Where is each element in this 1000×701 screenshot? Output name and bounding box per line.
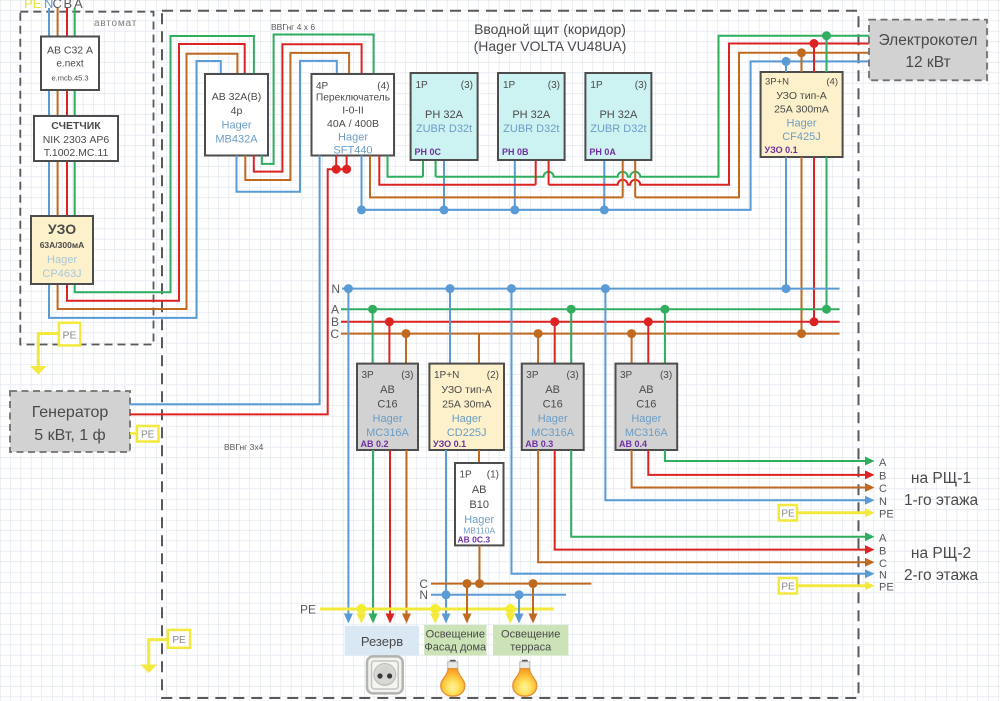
wire brown from УЗО CP463J to АВ 32А(В) input loop bbox=[58, 54, 238, 309]
svg-text:1Р: 1Р bbox=[590, 80, 603, 91]
svg-text:PE: PE bbox=[141, 430, 155, 441]
svg-text:РН 0С: РН 0С bbox=[415, 147, 442, 157]
PE terminal box РЩ-2 bbox=[779, 578, 797, 594]
svg-text:3Р: 3Р bbox=[526, 370, 539, 381]
svg-text:АВ: АВ bbox=[545, 384, 560, 396]
svg-text:АВ: АВ bbox=[639, 384, 654, 396]
svg-text:Hager: Hager bbox=[47, 254, 77, 266]
junction dots on buses bbox=[344, 284, 353, 293]
wire blue generator N to Переключатель input II bbox=[130, 156, 320, 405]
wire АВ 0.3 outputs to РЩ-2 (green A) bbox=[571, 450, 866, 537]
svg-text:Вводной щит (коридор): Вводной щит (коридор) bbox=[474, 21, 626, 37]
svg-text:C16: C16 bbox=[377, 399, 397, 411]
svg-text:N: N bbox=[331, 282, 340, 296]
svg-text:Фасад дома: Фасад дома bbox=[424, 642, 487, 654]
wire УЗО CD225J phase output into АВ В10 bbox=[478, 450, 480, 463]
svg-text:B: B bbox=[879, 471, 886, 483]
svg-text:Освещение: Освещение bbox=[501, 629, 560, 641]
svg-text:I-0-II: I-0-II bbox=[342, 105, 364, 117]
icon bulb (Фасад дома) bbox=[441, 660, 465, 696]
svg-text:Hager: Hager bbox=[373, 413, 403, 425]
PE terminal box (bottom left) bbox=[168, 630, 190, 648]
svg-text:A: A bbox=[879, 533, 887, 545]
svg-text:(3): (3) bbox=[566, 370, 578, 381]
svg-text:SFT440: SFT440 bbox=[333, 145, 372, 157]
svg-text:(Hager VOLTA VU48UA): (Hager VOLTA VU48UA) bbox=[474, 38, 627, 54]
wire PE to ground (meter compartment) bbox=[38, 334, 59, 367]
wire B incoming (red) through meter chain bbox=[66, 8, 68, 216]
svg-text:Генератор: Генератор bbox=[32, 404, 109, 421]
lighting bus PE (yellow) bbox=[320, 608, 554, 611]
svg-text:1Р+N: 1Р+N bbox=[434, 370, 459, 381]
breaker АВ 0.2 MC316A bbox=[357, 364, 418, 450]
load Резерв bbox=[345, 626, 419, 656]
wire red phase РН 0В output to УЗО 0.1 and Электрокотел bbox=[549, 44, 869, 185]
svg-text:АВ 32А(В): АВ 32А(В) bbox=[212, 91, 262, 103]
wire PE drops to loads (yellow arrows) bbox=[360, 609, 363, 614]
svg-text:Электрокотел: Электрокотел bbox=[879, 32, 978, 49]
svg-text:CF425J: CF425J bbox=[782, 131, 821, 143]
svg-text:1Р: 1Р bbox=[503, 80, 516, 91]
breaker АВ 0.4 MC316A bbox=[616, 364, 678, 450]
frame: main switchboard dashed box bbox=[162, 11, 859, 698]
wire N drop to терраса (blue arrow) bbox=[518, 595, 520, 614]
svg-text:(4): (4) bbox=[826, 77, 838, 88]
changeover switch Переключатель SFT440 bbox=[312, 74, 395, 157]
junction dots N line bbox=[357, 205, 366, 214]
svg-text:C16: C16 bbox=[543, 399, 563, 411]
svg-text:терраса: терраса bbox=[510, 642, 552, 654]
svg-text:Hager: Hager bbox=[538, 413, 568, 425]
svg-text:РЕ: РЕ bbox=[879, 582, 894, 594]
RCD УЗО 0.1 CF425J bbox=[761, 72, 843, 157]
svg-text:АВ: АВ bbox=[380, 384, 395, 396]
svg-text:B: B bbox=[879, 546, 886, 558]
svg-text:РН 0А: РН 0А bbox=[589, 147, 616, 157]
svg-text:Hager: Hager bbox=[631, 413, 661, 425]
load Освещение терраса bbox=[493, 625, 568, 656]
breaker АВ 32А(В) MB432A bbox=[205, 74, 268, 156]
svg-text:АВ 0.4: АВ 0.4 bbox=[619, 439, 647, 449]
svg-text:3Р: 3Р bbox=[620, 370, 633, 381]
svg-text:C: C bbox=[330, 327, 339, 341]
svg-text:MC316A: MC316A bbox=[531, 427, 574, 439]
svg-text:e.mcb.45.3: e.mcb.45.3 bbox=[51, 74, 88, 83]
svg-text:(3): (3) bbox=[401, 370, 413, 381]
voltage relay РН 0В ZUBR D32t bbox=[498, 73, 565, 160]
wire N stubs to relay boxes bbox=[444, 160, 604, 210]
wire N Переключатель out to voltage relays and УЗО 0.1 (blue) bbox=[362, 61, 870, 210]
svg-text:4р: 4р bbox=[231, 105, 243, 117]
svg-text:Hager: Hager bbox=[464, 514, 494, 526]
svg-text:Освещение: Освещение bbox=[426, 629, 485, 641]
svg-text:АВ С32 А: АВ С32 А bbox=[47, 45, 93, 57]
svg-text:ZUBR D32t: ZUBR D32t bbox=[590, 123, 646, 135]
voltage relay РН 0А ZUBR D32t bbox=[585, 73, 651, 160]
svg-text:ВВГнг 3х4: ВВГнг 3х4 bbox=[224, 442, 264, 452]
wire АВ 0.4 outputs to РЩ-1 (red B) bbox=[648, 450, 866, 475]
svg-text:ZUBR D32t: ZUBR D32t bbox=[503, 123, 559, 135]
PE terminal box (meter compartment) bbox=[59, 323, 80, 346]
svg-text:Hager: Hager bbox=[222, 120, 252, 132]
svg-text:3Р+N: 3Р+N bbox=[765, 77, 789, 88]
wire taps from buses into АВ 0.3 bbox=[537, 334, 539, 364]
svg-text:Резерв: Резерв bbox=[361, 634, 403, 649]
svg-text:MC316A: MC316A bbox=[625, 427, 668, 439]
wire brown АВ 32А(В) out to Переключатель input I bbox=[245, 53, 349, 180]
wire АВ 0.4 outputs to РЩ-1 (green A) bbox=[665, 450, 866, 461]
lighting bus N (blue) bbox=[431, 594, 566, 596]
svg-text:PE: PE bbox=[172, 635, 186, 646]
wire taps from buses into АВ 0.2 bbox=[372, 309, 374, 363]
svg-text:1Р: 1Р bbox=[416, 80, 429, 91]
wire АВ 0.2 outputs down to Резерв bbox=[372, 450, 374, 614]
bus B (red) bbox=[341, 321, 840, 323]
wire brown phase РН 0А output to УЗО 0.1 and Электрокотел bbox=[635, 53, 869, 198]
bus A (green) bbox=[341, 308, 840, 310]
svg-text:УЗО 0.1: УЗО 0.1 bbox=[765, 145, 798, 155]
wire N tap to Резерв (blue, left of АВ 0.2) bbox=[347, 289, 349, 614]
RCD УЗО 0.1 CD225J bbox=[429, 364, 504, 450]
wire C drops to lighting loads (brown arrows) bbox=[466, 584, 468, 614]
svg-text:УЗО: УЗО bbox=[48, 221, 76, 237]
svg-text:автомат: автомат bbox=[94, 18, 137, 29]
svg-text:1Р: 1Р bbox=[460, 470, 473, 481]
svg-text:ZUBR D32t: ZUBR D32t bbox=[416, 123, 472, 135]
wire red from УЗО CP463J to АВ 32А(В) input loop bbox=[67, 44, 245, 301]
svg-text:СР463J: СР463J bbox=[42, 268, 81, 280]
svg-text:РЕ: РЕ bbox=[300, 603, 316, 617]
electric boiler Электрокотел 12 кВт bbox=[869, 20, 987, 81]
svg-text:CD225J: CD225J bbox=[447, 427, 487, 439]
svg-text:В10: В10 bbox=[469, 499, 489, 511]
svg-text:4Р: 4Р bbox=[316, 81, 329, 92]
junction dot brown at УЗО 0.1 tap bbox=[797, 48, 806, 57]
svg-text:5 кВт, 1 ф: 5 кВт, 1 ф bbox=[34, 427, 105, 444]
frame: meter compartment dashed box bbox=[20, 12, 153, 345]
svg-text:MC316A: MC316A bbox=[366, 427, 409, 439]
meter СЧЕТЧИК NIK 2303 bbox=[34, 116, 118, 161]
svg-text:25А 300mA: 25А 300mA bbox=[774, 104, 829, 116]
wire taps from buses into АВ 0.4 bbox=[631, 334, 633, 364]
wire АВ 0.4 outputs to РЩ-1 (brown C) bbox=[632, 450, 866, 488]
wire green АВ 32А(В) out to Переключатель input I bbox=[262, 35, 374, 164]
wire PE РЩ-1 (yellow arrow) bbox=[797, 511, 866, 514]
svg-text:УЗО тип-А: УЗО тип-А bbox=[776, 90, 827, 102]
svg-text:АВ: АВ bbox=[472, 484, 487, 496]
svg-text:Т.1002.МС.11: Т.1002.МС.11 bbox=[44, 147, 109, 159]
svg-text:MB432A: MB432A bbox=[215, 134, 258, 146]
junction dot green at УЗО 0.1 tap bbox=[822, 31, 831, 40]
junction dots generator phase bridge bbox=[332, 165, 341, 174]
svg-text:1-го этажа: 1-го этажа bbox=[904, 492, 979, 509]
voltage relay РН 0С ZUBR D32t bbox=[411, 73, 478, 160]
wire АВ 0.3 outputs to РЩ-2 (red B) bbox=[555, 450, 866, 550]
svg-text:40А / 400В: 40А / 400В bbox=[327, 118, 379, 130]
svg-text:N: N bbox=[419, 588, 428, 602]
wire green from УЗО CP463J to АВ 32А(В) input loop bbox=[75, 36, 254, 292]
svg-text:N: N bbox=[879, 496, 887, 508]
wire N bus to РЩ-2 (blue N) bbox=[512, 289, 867, 574]
wire АВ В10 output down to lighting C line bbox=[479, 545, 481, 583]
svg-text:C: C bbox=[879, 483, 887, 495]
svg-text:(4): (4) bbox=[377, 81, 389, 92]
bus N (blue) bbox=[342, 288, 840, 290]
wire УЗО CD225J N output down to lighting N line and Фасад bbox=[445, 450, 447, 614]
svg-text:РН 0В: РН 0В bbox=[502, 147, 529, 157]
svg-text:12 кВт: 12 кВт bbox=[905, 54, 950, 71]
svg-text:РЕ: РЕ bbox=[781, 582, 795, 593]
icon bulb (терраса) bbox=[513, 660, 537, 696]
svg-text:АВ 0С.3: АВ 0С.3 bbox=[458, 535, 491, 545]
wire N bus to РЩ-1 (blue N) bbox=[605, 289, 866, 501]
svg-text:РН 32А: РН 32А bbox=[599, 109, 638, 121]
svg-text:(3): (3) bbox=[660, 370, 672, 381]
svg-text:УЗО тип-А: УЗО тип-А bbox=[441, 384, 492, 396]
svg-text:(1): (1) bbox=[487, 470, 499, 481]
wire stubs into УЗО 0.1 top bbox=[785, 61, 787, 72]
svg-text:УЗО 0.1: УЗО 0.1 bbox=[433, 439, 466, 449]
svg-text:N: N bbox=[879, 570, 887, 582]
icon socket (Резерв) bbox=[367, 656, 403, 693]
svg-text:СЧЕТЧИК: СЧЕТЧИК bbox=[51, 120, 101, 132]
wire A incoming (green) through meter chain bbox=[74, 8, 76, 216]
breaker АВ В10 MB110A bbox=[455, 463, 504, 545]
svg-text:PE: PE bbox=[62, 330, 76, 342]
svg-text:C16: C16 bbox=[636, 399, 656, 411]
svg-text:Hager: Hager bbox=[787, 118, 817, 130]
wire АВ 0.3 outputs to РЩ-2 (brown C) bbox=[538, 450, 866, 562]
wire blue from УЗО CP463J to АВ 32А(В) input loop bbox=[49, 61, 221, 318]
RCD УЗО CP463J bbox=[31, 216, 93, 284]
wire green phase РН 0С output to УЗО 0.1 and Электрокотел bbox=[436, 36, 869, 177]
svg-text:Hager: Hager bbox=[338, 132, 368, 144]
wire red phase Переключатель to РН 0В input bbox=[379, 156, 535, 185]
svg-text:(3): (3) bbox=[548, 80, 560, 91]
wire blue АВ 32А(В) out to Переключатель input I bbox=[237, 61, 337, 192]
svg-text:NIK 2303 АР6: NIK 2303 АР6 bbox=[43, 134, 110, 146]
svg-text:на РЩ-2: на РЩ-2 bbox=[911, 545, 971, 562]
breaker АВ 0.3 MC316A bbox=[522, 364, 584, 450]
svg-text:АВ 0.3: АВ 0.3 bbox=[525, 439, 553, 449]
wire red АВ 32А(В) out to Переключатель input I bbox=[254, 44, 362, 171]
svg-text:63А/300мА: 63А/300мА bbox=[40, 240, 85, 250]
load Освещение Фасад дома bbox=[424, 625, 487, 656]
junction dot red at УЗО 0.1 tap bbox=[810, 39, 819, 48]
wire C incoming (brown) through meter chain bbox=[57, 8, 59, 216]
svg-text:АВ 0.2: АВ 0.2 bbox=[361, 439, 389, 449]
wire N incoming (blue) through meter chain bbox=[48, 8, 50, 216]
svg-text:e.next: e.next bbox=[56, 59, 83, 70]
bus C (brown) bbox=[341, 333, 840, 335]
svg-text:PE: PE bbox=[24, 0, 42, 11]
svg-text:25А 30mA: 25А 30mA bbox=[442, 399, 491, 411]
svg-text:на РЩ-1: на РЩ-1 bbox=[911, 470, 971, 487]
svg-text:Hager: Hager bbox=[452, 413, 482, 425]
svg-text:C: C bbox=[879, 558, 887, 570]
ground symbol (meter compartment) bbox=[30, 366, 47, 375]
wire PE РЩ-2 (yellow arrow) bbox=[797, 584, 866, 587]
svg-text:(3): (3) bbox=[461, 80, 473, 91]
svg-text:РЕ: РЕ bbox=[879, 509, 894, 521]
svg-text:Переключатель: Переключатель bbox=[316, 93, 390, 104]
svg-text:2-го этажа: 2-го этажа bbox=[904, 567, 979, 584]
ground symbol (bottom left) bbox=[140, 665, 157, 674]
wire УЗО 0.1 outputs down to distribution buses bbox=[785, 157, 787, 289]
svg-text:РЕ: РЕ bbox=[781, 509, 795, 520]
wire red generator phase to Переключатель input II bbox=[130, 156, 347, 415]
svg-text:(2): (2) bbox=[487, 370, 499, 381]
svg-text:3Р: 3Р bbox=[362, 370, 375, 381]
PE terminal box РЩ-1 bbox=[779, 505, 797, 521]
svg-text:РН 32А: РН 32А bbox=[512, 109, 551, 121]
wire taps from buses into УЗО 0.1 CD225J bbox=[449, 289, 451, 364]
svg-text:РН 32А: РН 32А bbox=[425, 109, 464, 121]
lighting bus C (brown) bbox=[431, 583, 591, 585]
wire green phase Переключатель to РН 0С input bbox=[388, 156, 424, 177]
PE terminal box (generator) bbox=[130, 426, 159, 442]
wire PE to ground (bottom left) bbox=[149, 640, 168, 665]
generator Генератор 5 кВт bbox=[10, 391, 130, 452]
svg-text:(3): (3) bbox=[635, 80, 647, 91]
svg-text:ВВГнг 4 х 6: ВВГнг 4 х 6 bbox=[271, 22, 315, 32]
breaker АВ С32 А bbox=[41, 37, 99, 91]
svg-text:A: A bbox=[879, 457, 887, 469]
wire brown phase Переключатель to РН 0А input bbox=[370, 156, 623, 198]
